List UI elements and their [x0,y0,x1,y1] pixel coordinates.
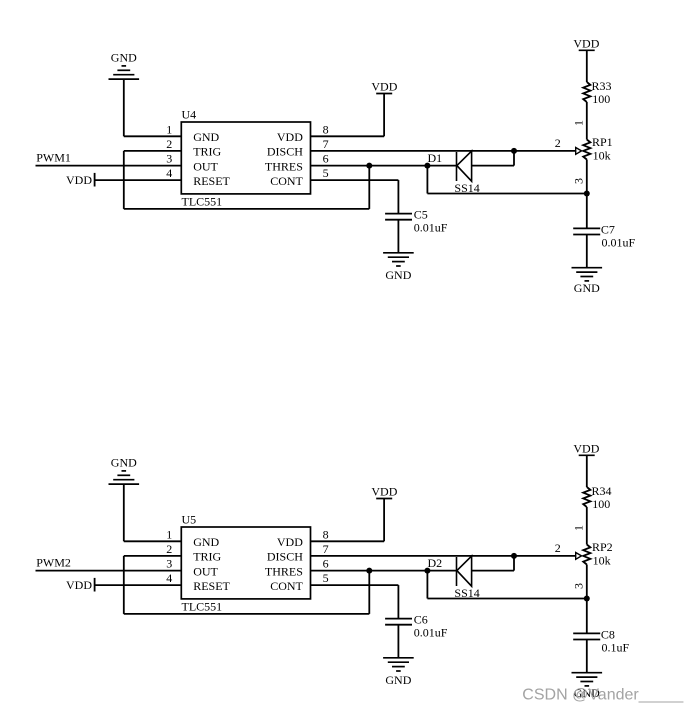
resistor R33 [583,82,590,102]
svg-text:1: 1 [166,122,172,136]
svg-text:TLC551: TLC551 [182,599,223,613]
svg-text:D2: D2 [428,556,443,570]
svg-text:VDD: VDD [277,130,303,144]
junction RP pin 3 node [584,191,590,197]
svg-text:GND: GND [574,281,600,295]
wire pin 7 DISCH to potentiometer wiper [311,150,577,152]
svg-text:4: 4 [166,571,172,585]
wire pin 8 VDD horizontal [311,135,385,137]
svg-text:VDD: VDD [371,485,397,499]
svg-text:PWM1: PWM1 [36,151,71,165]
wire pin 8 up to VDD port [383,94,385,137]
svg-text:2: 2 [555,136,561,150]
svg-text:100: 100 [592,92,610,106]
svg-text:GND: GND [193,130,219,144]
wire TRIG feedback bottom horizontal [124,613,369,615]
svg-text:2: 2 [555,541,561,555]
diode D1 SS14 (cathode bar left) [457,151,472,181]
wire GND stem down to U pin 1 [123,79,125,136]
wire VDD bar to pin 4 RESET [95,584,182,586]
svg-text:C6: C6 [414,612,428,626]
svg-text:3: 3 [571,583,585,589]
capacitor C8 [573,633,600,639]
ground below C7 [572,268,603,296]
power port VDD (right column top) [573,441,599,455]
wire pin1 to IC [124,135,182,137]
ground below C8 [572,673,603,701]
svg-text:D1: D1 [428,151,443,165]
wire pin 2 TRIG to IC [124,150,182,152]
ground below C5 [383,253,414,282]
power port VDD (left, at RESET pin 4) [66,578,95,592]
svg-text:2: 2 [166,542,172,556]
wire VDD to R33 [586,50,588,82]
svg-text:U5: U5 [182,513,197,527]
wire CONT down to C6 [397,585,399,619]
svg-text:RESET: RESET [193,579,230,593]
wire PWM2 to pin 3 OUT [36,570,182,572]
svg-text:GND: GND [111,456,137,470]
svg-text:OUT: OUT [193,564,218,578]
svg-text:TLC551: TLC551 [182,194,223,208]
svg-text:CONT: CONT [270,579,303,593]
junction THRES / wire to RP pin 3 [424,163,430,169]
junction THRES / wire to RP pin 3 [424,568,430,574]
capacitor C5 0.01uF [385,214,412,220]
svg-text:GND: GND [111,51,137,65]
ground GND (left, inverted earth, net GND) [109,51,140,80]
wire TRIG feedback bottom horizontal [124,208,369,210]
wire node down to C7 [586,194,588,229]
svg-text:8: 8 [323,122,329,136]
wire PWM1 to pin 3 OUT [36,165,182,167]
wire anode riser up to DISCH [513,151,515,166]
op-amp/timer IC U4 TLC551 body [181,122,310,194]
svg-text:1: 1 [166,527,172,541]
svg-text:RESET: RESET [193,174,230,188]
svg-text:100: 100 [592,497,610,511]
wire RP2 pin 3 down [586,565,588,599]
svg-text:0.01uF: 0.01uF [414,221,448,235]
wire pin 8 up to VDD port [383,499,385,542]
junction on THRES line [366,163,372,169]
power port VDD (right column top) [573,36,599,50]
wire TRIG feedback vertical up to THRES line [368,571,370,614]
svg-text:6: 6 [323,152,329,166]
power port VDD (above IC pin 8) [371,80,397,94]
wire diode anode right [472,570,514,572]
junction RP pin 3 node [584,596,590,602]
wire R34 to RP pin 1 [586,507,588,545]
svg-text:VDD: VDD [573,36,599,50]
wire bottom horizontal to RP pin 3 node [427,193,586,195]
svg-text:GND: GND [385,673,411,687]
wire C7 to ground [586,235,588,268]
svg-text:0.01uF: 0.01uF [602,235,636,249]
resistor R34 [583,487,590,507]
junction DISCH / diode anode riser [511,148,517,154]
svg-text:VDD: VDD [277,535,303,549]
svg-text:PWM2: PWM2 [36,556,71,570]
svg-text:4: 4 [166,166,172,180]
wire VDD to R34 [586,455,588,487]
wire C8 to ground [586,640,588,673]
svg-text:TRIG: TRIG [193,145,221,159]
svg-text:1: 1 [571,120,585,126]
wire R33 to RP pin 1 [586,102,588,140]
wire pin 5 CONT horizontal [311,179,399,181]
svg-text:THRES: THRES [265,564,303,578]
svg-text:DISCH: DISCH [267,550,303,564]
svg-text:3: 3 [166,557,172,571]
svg-text:8: 8 [323,527,329,541]
svg-text:C5: C5 [414,207,428,221]
junction DISCH / diode anode riser [511,553,517,559]
svg-text:3: 3 [571,178,585,184]
svg-text:CONT: CONT [270,174,303,188]
wire anode riser up to DISCH [513,556,515,571]
svg-text:RP2: RP2 [592,540,613,554]
svg-text:VDD: VDD [573,441,599,455]
wire VDD bar to pin 4 RESET [95,179,182,181]
wire pin 2 TRIG to IC [124,555,182,557]
svg-text:RP1: RP1 [592,135,613,149]
wire TRIG feedback vertical up to THRES line [368,166,370,209]
wire C6 to ground [397,625,399,658]
capacitor C7 [573,228,600,234]
wire pin 8 VDD horizontal [311,540,385,542]
svg-text:C7: C7 [601,222,615,236]
diode D2 SS14 (cathode bar left) [457,556,472,586]
svg-text:3: 3 [166,152,172,166]
potentiometer RP1 10k element [583,140,590,160]
wire pin 6 THRES to diode cathode [311,165,457,167]
wire diode anode right [472,165,514,167]
wire GND stem down to U pin 1 [123,484,125,541]
ground GND (left, inverted earth, net GND) [109,456,140,485]
svg-text:1: 1 [571,525,585,531]
wire RP1 pin 3 down [586,160,588,194]
capacitor C6 0.01uF [385,619,412,625]
wire THRES junction down [426,166,428,194]
svg-text:10k: 10k [593,554,611,568]
svg-text:VDD: VDD [371,80,397,94]
svg-text:0.1uF: 0.1uF [602,640,630,654]
power port VDD (left, at RESET pin 4) [66,173,95,187]
wire TRIG feedback vertical left [123,151,125,209]
junction on THRES line [366,568,372,574]
wire bottom horizontal to RP pin 3 node [427,598,586,600]
power port VDD (above IC pin 8) [371,485,397,499]
ground below C6 [383,658,414,687]
potentiometer RP2 10k element [583,545,590,565]
RP1 wiper arrow [576,148,582,155]
svg-text:6: 6 [323,557,329,571]
wire CONT down to C5 [397,180,399,214]
svg-text:U4: U4 [182,108,197,122]
op-amp/timer IC U5 TLC551 body [181,527,310,599]
svg-text:7: 7 [323,137,329,151]
wire THRES junction down [426,571,428,599]
svg-text:C8: C8 [601,627,615,641]
wire TRIG feedback vertical left [123,556,125,614]
wire C5 to ground [397,220,399,253]
svg-text:2: 2 [166,137,172,151]
wire pin 5 CONT horizontal [311,584,399,586]
svg-text:0.01uF: 0.01uF [414,626,448,640]
svg-text:OUT: OUT [193,159,218,173]
svg-text:CSDN @Vander_____: CSDN @Vander_____ [522,687,684,704]
svg-text:5: 5 [323,166,329,180]
svg-text:THRES: THRES [265,159,303,173]
svg-text:GND: GND [385,268,411,282]
svg-text:VDD: VDD [66,578,92,592]
svg-text:5: 5 [323,571,329,585]
svg-text:10k: 10k [593,149,611,163]
svg-text:GND: GND [193,535,219,549]
svg-text:TRIG: TRIG [193,550,221,564]
svg-text:7: 7 [323,542,329,556]
wire pin 7 DISCH to potentiometer wiper [311,555,577,557]
RP2 wiper arrow [576,553,582,560]
wire pin 6 THRES to diode cathode [311,570,457,572]
wire node down to C8 [586,599,588,634]
svg-text:DISCH: DISCH [267,145,303,159]
wire pin1 to IC [124,540,182,542]
svg-text:VDD: VDD [66,173,92,187]
